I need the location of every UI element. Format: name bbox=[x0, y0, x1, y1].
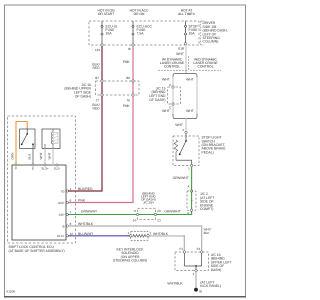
svg-text:COMPT): COMPT) bbox=[200, 207, 213, 211]
svg-text:WHT: WHT bbox=[176, 52, 184, 56]
node: HOT IN ON OR START bbox=[98, 8, 116, 16]
svg-text:WHT: WHT bbox=[47, 152, 51, 159]
wire BLK from switch to ECU pin E bbox=[32, 148, 34, 165]
junction block: driver side J/B (dashed box) bbox=[89, 21, 199, 45]
svg-text:B: B bbox=[62, 224, 64, 228]
svg-text:WHT: WHT bbox=[39, 152, 43, 159]
svg-text:77: 77 bbox=[96, 98, 100, 102]
connector A (J/C 2 bottom) bbox=[187, 209, 193, 215]
connector E1B at J/B bbox=[178, 43, 186, 51]
pin SLS- bbox=[54, 164, 61, 171]
svg-text:WHT: WHT bbox=[175, 123, 183, 127]
pin IG (1) bbox=[61, 187, 71, 193]
svg-text:DASH): DASH) bbox=[211, 268, 222, 272]
svg-text:8: 8 bbox=[134, 209, 136, 213]
label: DRIVER SIDE J/B (BEHIND DASH, LEFT OF STEERING COLUMN) bbox=[201, 21, 228, 45]
connector 20 (J/C 3&4 right) bbox=[154, 209, 161, 216]
wire WHT/BLK from J/C16 to ground bbox=[195, 272, 197, 288]
connector 18 at J/B bbox=[128, 44, 134, 51]
svg-text:OR START: OR START bbox=[98, 12, 114, 16]
svg-text:3: 3 bbox=[150, 232, 152, 236]
connector 1 (J/C16 bottom) bbox=[192, 269, 197, 276]
label KEY INTERLOCK SOLENOID (ON UPPER STEERING COLUMN) bbox=[113, 247, 147, 262]
svg-text:WHT/BLK: WHT/BLK bbox=[78, 222, 94, 226]
svg-text:4: 4 bbox=[128, 232, 130, 236]
svg-text:WHT: WHT bbox=[162, 77, 170, 81]
fuse ECU-IG 10A bbox=[101, 21, 118, 45]
connector 77 (J/C10 bottom, BLK/RED) bbox=[96, 94, 104, 103]
connector F1 (J/C16) bbox=[179, 247, 185, 253]
wire merge brace (WHT) bbox=[173, 114, 197, 119]
svg-text:BLK: BLK bbox=[204, 231, 210, 235]
connector 8 (J/C 3&4 left) bbox=[134, 209, 138, 216]
svg-text:F1: F1 bbox=[179, 247, 183, 251]
connector 78 (J/C10 bottom, PNK) bbox=[127, 94, 135, 103]
wire WHT from solenoid to ECU pin SLS- bbox=[52, 148, 54, 165]
svg-text:2: 2 bbox=[182, 128, 184, 132]
svg-text:BLK: BLK bbox=[28, 154, 32, 160]
node: HOT IN ACC OR ON bbox=[130, 8, 149, 16]
svg-text:COLUMN): COLUMN) bbox=[203, 40, 219, 44]
svg-text:RED: RED bbox=[93, 66, 101, 70]
svg-text:GRN/WHT: GRN/WHT bbox=[81, 210, 97, 214]
junction block J/C 10 (dashed box) bbox=[96, 81, 140, 95]
ground IE (at left kick panel) bbox=[194, 288, 202, 293]
wire BLK/RED vertical from ECU-IG fuse to ECU pin IG bbox=[68, 46, 102, 191]
wire WHT/BLK from solenoid to J/C 16 bbox=[149, 236, 184, 251]
svg-text:E1B: E1B bbox=[178, 46, 184, 50]
svg-text:SLS-: SLS- bbox=[54, 167, 61, 171]
svg-text:WHT: WHT bbox=[186, 109, 194, 113]
label WHT/BLK vertical segment at J/C16 bbox=[204, 228, 212, 235]
fuse STOP 10A bbox=[185, 21, 199, 43]
svg-text:1: 1 bbox=[192, 272, 194, 276]
wire WHT left branch (w/ dynamic) bbox=[172, 77, 174, 115]
connector F2 (J/C16) bbox=[197, 247, 203, 253]
svg-text:OR ON: OR ON bbox=[134, 12, 145, 16]
fuse ECU-ACC 7.5A bbox=[132, 21, 152, 45]
svg-text:20: 20 bbox=[157, 209, 161, 213]
svg-text:CONTROL: CONTROL bbox=[164, 64, 180, 68]
svg-text:10A: 10A bbox=[106, 32, 113, 36]
key interlock solenoid coil bbox=[133, 234, 146, 237]
svg-text:WHT: WHT bbox=[186, 77, 194, 81]
shift lock switch contacts bbox=[21, 129, 34, 148]
J/C 16 internal wires bbox=[184, 253, 201, 270]
svg-text:WHT/BLK: WHT/BLK bbox=[153, 232, 169, 236]
wire BLU/WHT from pin KLS+ to key interlock solenoid bbox=[68, 235, 131, 237]
svg-text:ALL TIMES: ALL TIMES bbox=[178, 12, 195, 16]
svg-text:7.5A: 7.5A bbox=[137, 32, 145, 36]
svg-text:E: E bbox=[32, 167, 34, 171]
svg-text:BLU/WHT: BLU/WHT bbox=[78, 232, 93, 236]
svg-text:1: 1 bbox=[188, 166, 190, 170]
wire split brace (WHT) bbox=[173, 74, 197, 80]
stop light switch (dashed box) bbox=[173, 136, 199, 166]
svg-text:RED: RED bbox=[93, 107, 101, 111]
svg-text:ORN: ORN bbox=[11, 153, 15, 160]
svg-text:GRN/WHT: GRN/WHT bbox=[173, 176, 189, 180]
wire GRN/WHT from stop light switch to ECU pin STP bbox=[68, 167, 192, 215]
shift lock solenoid coil bbox=[45, 129, 58, 148]
svg-text:61208: 61208 bbox=[7, 290, 16, 294]
pin SLS+ bbox=[41, 164, 49, 171]
svg-text:1: 1 bbox=[70, 187, 72, 191]
label BLK/RED (above J/C 10) bbox=[92, 63, 100, 71]
svg-text:KICK PANEL): KICK PANEL) bbox=[200, 284, 221, 288]
label: W/ DYNAMIC LASER CRUISE CONTROL bbox=[158, 58, 187, 71]
shifter assembly (outer dashed box) bbox=[8, 116, 76, 243]
connector A (J/C 2 top) bbox=[187, 185, 192, 193]
key interlock solenoid (dashed box) bbox=[131, 231, 148, 240]
svg-text:7: 7 bbox=[70, 211, 72, 215]
svg-text:10A: 10A bbox=[189, 32, 196, 36]
svg-text:24: 24 bbox=[133, 219, 137, 223]
wire ORN from ECU pin P up to shift lock switch bbox=[16, 122, 27, 166]
svg-text:(AT BASE OF SHIFTER ASSEMBLY): (AT BASE OF SHIFTER ASSEMBLY) bbox=[9, 249, 65, 253]
wire WHT/BLK from ECU pin B to J/C 16 bbox=[68, 226, 202, 251]
svg-text:F2: F2 bbox=[197, 247, 201, 251]
label STOP LIGHT SWITCH (ON BRACKET, ABOVE BRAKE PEDAL) bbox=[202, 136, 227, 155]
connector B8 (J/C10 top, PNK) bbox=[126, 76, 134, 82]
pin STP (7) bbox=[59, 211, 72, 217]
shift lock switch (solid box) bbox=[20, 129, 35, 148]
svg-text:OF DASH): OF DASH) bbox=[75, 94, 91, 98]
pin P bbox=[15, 164, 17, 171]
junction dot inside J/C 2 bbox=[191, 200, 193, 202]
label SHIFT LOCK CONTROL ECU (AT BASE OF SHIFTER ASSEMBLY) bbox=[9, 245, 65, 253]
shift lock solenoid (solid box) bbox=[42, 129, 60, 148]
connector 2 at stop light switch bbox=[182, 128, 187, 134]
wire WHT stem to stop light switch bbox=[185, 119, 187, 132]
wire PNK vertical from ECU-ACC fuse to ECU pin ACC bbox=[68, 46, 133, 202]
connector C (J/C15 top) bbox=[169, 83, 174, 88]
label J/C 10 (BEHIND UPPER LEFT SIDE OF DASH) bbox=[64, 83, 91, 98]
svg-text:IE: IE bbox=[199, 289, 202, 293]
svg-text:B7: B7 bbox=[95, 76, 99, 80]
pin B (8) bbox=[62, 222, 71, 228]
label: W/O DYNAMIC LASER CRUISE CONTROL bbox=[189, 56, 221, 70]
svg-text:STEERING COLUMN): STEERING COLUMN) bbox=[113, 259, 147, 263]
pin ACC (6) bbox=[58, 199, 72, 205]
pin E bbox=[32, 164, 34, 171]
svg-text:PNK: PNK bbox=[78, 199, 86, 203]
connector 3 (solenoid right) bbox=[147, 232, 152, 237]
border frame bbox=[4, 5, 246, 297]
label BLK/RED (below J/C 10) bbox=[92, 103, 100, 111]
wire WHT right branch (w/o dynamic) bbox=[196, 77, 198, 115]
svg-text:BLK/RED: BLK/RED bbox=[78, 187, 93, 191]
svg-text:PEDAL): PEDAL) bbox=[202, 150, 214, 154]
connector B7 (J/C10 top, BLK/RED) bbox=[95, 76, 103, 82]
svg-text:P: P bbox=[15, 167, 17, 171]
svg-text:WHT/BLK: WHT/BLK bbox=[167, 281, 183, 285]
svg-text:PNK: PNK bbox=[123, 60, 131, 64]
label J/C 15 (BEHIND LEFT END OF DASH) bbox=[149, 86, 166, 101]
wire WHT from solenoid to ECU pin SLS+ bbox=[44, 148, 46, 165]
svg-text:12: 12 bbox=[70, 232, 74, 236]
svg-text:J/C 3&4: J/C 3&4 bbox=[143, 201, 154, 205]
connector C (J/C15 bottom) bbox=[169, 103, 174, 110]
label J/C 2 (AT LEFT SIDE OF ENGINE COMPT) bbox=[200, 192, 214, 211]
junction block J/C 2 (dashed box) bbox=[187, 191, 196, 210]
connector 4 (solenoid left) bbox=[128, 232, 132, 237]
connector 1 at stop light switch bbox=[188, 164, 193, 170]
label (AT LEFT KICK PANEL) bbox=[200, 280, 221, 288]
svg-text:PNK: PNK bbox=[123, 104, 131, 108]
svg-text:L23: L23 bbox=[95, 48, 100, 52]
svg-text:23: 23 bbox=[157, 219, 161, 223]
shift lock control ECU (solid box) bbox=[12, 165, 66, 240]
svg-text:CONTROL: CONTROL bbox=[197, 64, 213, 68]
svg-text:OF DASH): OF DASH) bbox=[149, 98, 165, 102]
wire WHT from STOP fuse down to split bbox=[185, 45, 187, 73]
svg-text:78: 78 bbox=[127, 98, 131, 102]
svg-text:SLS+: SLS+ bbox=[41, 167, 49, 171]
junction block J/C 3&4 (dashed box) bbox=[138, 208, 156, 219]
pin KLS+ (12) bbox=[57, 232, 73, 238]
svg-text:KLS+: KLS+ bbox=[57, 234, 65, 238]
junction block J/C 16 (dashed box) bbox=[175, 252, 209, 271]
svg-text:I8: I8 bbox=[128, 47, 131, 51]
svg-text:B8: B8 bbox=[126, 76, 130, 80]
svg-text:WHT: WHT bbox=[162, 109, 170, 113]
svg-text:ACC: ACC bbox=[58, 201, 65, 205]
svg-text:6: 6 bbox=[70, 199, 72, 203]
svg-text:GRN/WHT: GRN/WHT bbox=[164, 210, 180, 214]
node: HOT AT ALL TIMES bbox=[178, 8, 195, 16]
label (BEHIND LEFT END OF DASH) J/C 3&4 bbox=[141, 192, 156, 205]
connector L23 at J/B bbox=[95, 44, 103, 52]
svg-text:STP: STP bbox=[59, 213, 65, 217]
stop light switch internals bbox=[174, 134, 191, 166]
junction block J/C 15 (dashed box) bbox=[168, 87, 181, 104]
label J/C 16 (BEHIND UPPER LEFT SIDE OF DASH) bbox=[211, 253, 232, 272]
